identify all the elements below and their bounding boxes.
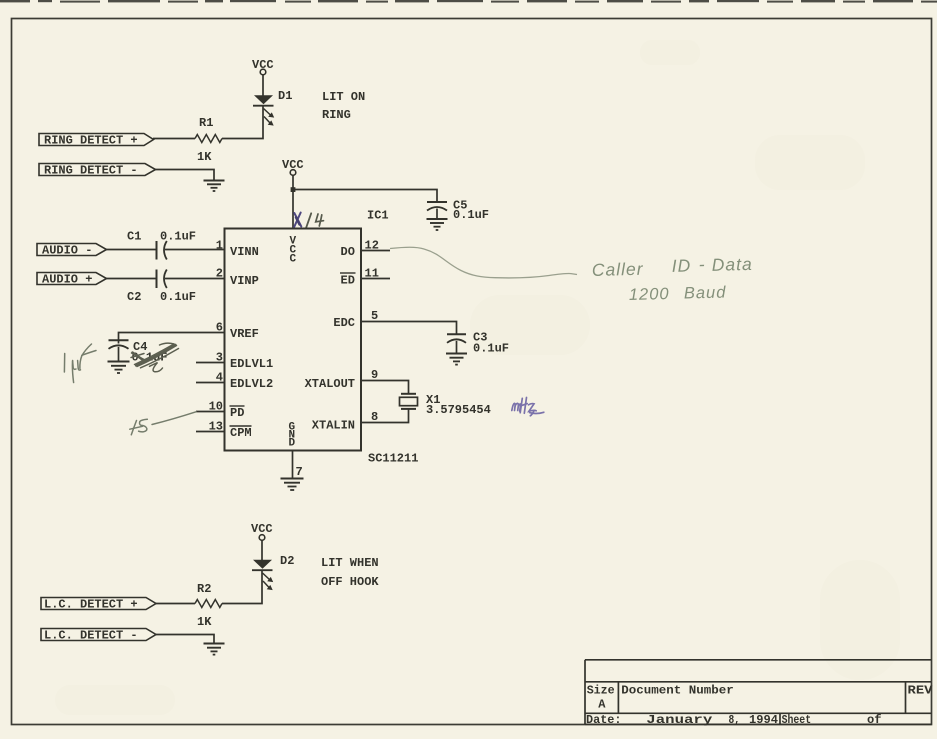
capacitor C1 xyxy=(157,241,167,260)
svg-text:C: C xyxy=(290,254,297,266)
pin 2 VINP xyxy=(216,267,259,289)
wire VCC to D2 anode xyxy=(261,540,263,560)
title block lines xyxy=(585,660,932,725)
svg-text:Baud: Baud xyxy=(684,283,727,302)
svg-text:RING DETECT +: RING DETECT + xyxy=(44,134,138,148)
svg-text:12: 12 xyxy=(365,239,379,253)
wire VCC down to IC1 VCC pin xyxy=(292,175,294,228)
wire VCC to D1 anode xyxy=(262,75,264,96)
svg-text:EDLVL2: EDLVL2 xyxy=(230,377,273,391)
handwritten X/4 (ink over VCC pin) xyxy=(294,213,324,228)
svg-text:10: 10 xyxy=(209,400,223,414)
wire C2 to pin 2 xyxy=(165,278,225,280)
wire VREF to C4 xyxy=(119,333,225,344)
svg-text:1200: 1200 xyxy=(629,285,670,304)
svg-text:0.1uF: 0.1uF xyxy=(160,230,196,244)
svg-text:RING: RING xyxy=(322,108,351,122)
handwritten MHZ (purple ink) xyxy=(512,398,544,416)
svg-text:D: D xyxy=(289,438,296,450)
ground (C4) xyxy=(108,362,130,374)
svg-text:-: - xyxy=(698,254,705,274)
ground (C3) xyxy=(446,354,467,365)
svg-text:L.C. DETECT +: L.C. DETECT + xyxy=(44,598,138,612)
pin 13 CPM (active low) xyxy=(196,420,252,441)
wire D1 cathode down to R1 node xyxy=(222,106,263,139)
ground (L.C. DETECT -) xyxy=(204,644,225,655)
crystal X1 xyxy=(400,394,418,409)
svg-text:ED: ED xyxy=(341,274,355,288)
svg-text:VINP: VINP xyxy=(230,274,259,288)
pin 4 EDLVL2 xyxy=(196,371,273,392)
svg-text:VCC: VCC xyxy=(282,158,304,172)
wire VCC branch to C5 xyxy=(293,190,437,202)
svg-text:Sheet: Sheet xyxy=(782,713,812,727)
wire D2 cathode down to R2 node xyxy=(222,570,262,603)
svg-text:ID: ID xyxy=(672,255,692,276)
wire L.C. DETECT - to ground xyxy=(156,635,214,644)
svg-text:AUDIO +: AUDIO + xyxy=(42,273,92,287)
wire XTALOUT to X1 xyxy=(361,381,409,394)
ground (C5) xyxy=(427,219,448,230)
svg-text:of: of xyxy=(867,713,882,727)
port L.C. DETECT - xyxy=(41,629,156,643)
svg-text:VCC: VCC xyxy=(251,522,273,536)
svg-text:1K: 1K xyxy=(197,615,212,629)
pin 10 PD (active low) xyxy=(196,400,245,421)
wire/pencil squiggle from pin 12 DO xyxy=(390,247,577,278)
LED D1 xyxy=(253,95,274,125)
svg-text:PD: PD xyxy=(230,406,244,420)
svg-text:R1: R1 xyxy=(199,116,213,130)
capacitor C4 xyxy=(109,340,129,361)
handwritten 1200 Baud (pencil) xyxy=(629,283,727,304)
pin GND (bottom) vertical label xyxy=(289,422,296,450)
svg-text:Caller: Caller xyxy=(592,259,644,280)
pin 7 GND wire xyxy=(293,451,303,480)
svg-text:AUDIO -: AUDIO - xyxy=(42,244,92,258)
svg-text:LIT ON: LIT ON xyxy=(322,90,365,104)
pin 11 ED (active low) xyxy=(340,267,390,288)
svg-text:LIT WHEN: LIT WHEN xyxy=(321,556,379,570)
svg-text:13: 13 xyxy=(209,420,223,434)
svg-text:XTALIN: XTALIN xyxy=(312,419,355,433)
svg-text:RING DETECT -: RING DETECT - xyxy=(44,164,138,178)
svg-text:SC11211: SC11211 xyxy=(368,452,418,466)
handwritten Caller ID - Data (pencil) xyxy=(592,253,754,280)
svg-text:7: 7 xyxy=(296,465,303,479)
svg-text:A: A xyxy=(598,698,606,712)
svg-text:L.C. DETECT -: L.C. DETECT - xyxy=(44,629,138,643)
svg-text:4: 4 xyxy=(216,371,223,385)
port RING DETECT + xyxy=(39,134,154,148)
svg-text:11: 11 xyxy=(365,267,379,281)
svg-text:DO: DO xyxy=(341,245,355,259)
pin 1 VINN xyxy=(216,239,259,260)
pin 6 VREF xyxy=(216,321,259,342)
capacitor C2 xyxy=(157,270,167,289)
wire AUDIO - to C1 xyxy=(107,249,157,251)
svg-text:R2: R2 xyxy=(197,582,211,596)
capacitor C5 xyxy=(427,202,447,219)
svg-text:0.1uF: 0.1uF xyxy=(473,342,509,356)
svg-text:EDLVL1: EDLVL1 xyxy=(230,357,273,371)
svg-text:1K: 1K xyxy=(197,150,212,164)
wire L.C. DETECT + to R2 xyxy=(156,603,195,605)
power VCC node above D1 xyxy=(260,69,266,75)
svg-text:C1: C1 xyxy=(127,230,141,244)
svg-text:OFF HOOK: OFF HOOK xyxy=(321,575,379,589)
svg-text:1994: 1994 xyxy=(749,713,778,727)
op-amp/IC U1 body SC11211 xyxy=(225,229,362,451)
svg-text:Size: Size xyxy=(587,684,615,698)
svg-text:C2: C2 xyxy=(127,290,141,304)
svg-text:January: January xyxy=(646,713,712,727)
svg-text:D2: D2 xyxy=(280,554,294,568)
svg-text:0.1uF: 0.1uF xyxy=(453,208,489,222)
svg-text:REV: REV xyxy=(908,684,934,698)
svg-text:VREF: VREF xyxy=(230,327,259,341)
wire AUDIO + to C2 xyxy=(107,278,157,280)
svg-text:3: 3 xyxy=(216,351,223,365)
wire X1 to XTALIN xyxy=(361,409,409,423)
svg-text:D1: D1 xyxy=(278,89,292,103)
svg-text:1: 1 xyxy=(216,239,223,253)
ground (IC1 pin 7) xyxy=(281,479,304,491)
capacitor C3 xyxy=(447,334,466,353)
port RING DETECT - xyxy=(39,164,156,178)
resistor R1 xyxy=(195,135,222,143)
handwritten cross-out scribble over C4 value xyxy=(131,343,179,372)
port L.C. DETECT + xyxy=(41,598,156,612)
svg-text:IC1: IC1 xyxy=(367,209,389,223)
scan artifact dashes along top edge xyxy=(0,0,937,3)
pin 8 XTALIN xyxy=(312,410,378,433)
wire RING DETECT + to R1 xyxy=(153,138,195,140)
wire RING DETECT - to ground xyxy=(156,170,215,181)
svg-text:CPM: CPM xyxy=(230,426,252,440)
pin 5 EDC xyxy=(333,309,378,330)
resistor R2 xyxy=(195,600,222,608)
power VCC node above IC1 xyxy=(290,170,296,176)
pin VCC (top) vertical label xyxy=(290,236,297,266)
svg-text:XTALOUT: XTALOUT xyxy=(305,377,355,391)
LED D2 xyxy=(252,560,273,590)
svg-text:Date:: Date: xyxy=(586,713,622,727)
svg-text:8,: 8, xyxy=(729,713,741,727)
power VCC node above D2 xyxy=(259,535,265,541)
svg-text:Document Number: Document Number xyxy=(621,684,734,698)
pin 3 EDLVL1 xyxy=(196,351,273,372)
wire C1 to pin 1 xyxy=(165,249,225,251)
wire EDC to C3 xyxy=(361,322,457,335)
handwritten +5 with leader to PD pin (pencil) xyxy=(130,412,196,435)
svg-text:Data: Data xyxy=(711,254,752,275)
svg-text:EDC: EDC xyxy=(333,316,355,330)
svg-text:VINN: VINN xyxy=(230,245,259,259)
pin 12 DO xyxy=(341,239,391,260)
ground (RING DETECT -) xyxy=(204,181,225,192)
svg-text:VCC: VCC xyxy=(252,58,274,72)
port AUDIO - xyxy=(37,244,107,258)
svg-text:0.1uF: 0.1uF xyxy=(160,290,196,304)
junction at VCC branch xyxy=(291,187,296,192)
port AUDIO + xyxy=(37,273,107,287)
pin 9 XTALOUT xyxy=(305,368,379,391)
handwritten 1uF (pencil) xyxy=(64,344,96,383)
svg-text:3.5795454: 3.5795454 xyxy=(426,403,491,417)
